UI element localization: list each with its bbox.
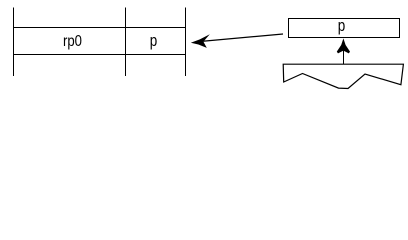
svg-text:p: p — [338, 16, 346, 35]
up arrowhead — [337, 38, 350, 53]
svg-text:p: p — [150, 31, 158, 50]
arrowhead pointing left — [191, 34, 210, 48]
up arrow shaft — [343, 48, 345, 65]
zigzag region outline — [283, 64, 403, 88]
box P rectangle — [289, 19, 400, 38]
tape horizontal line top — [13, 27, 186, 29]
tape vertical line middle — [125, 8, 127, 77]
tape horizontal line bottom — [13, 54, 186, 56]
arrow shaft from box to tape cell — [200, 34, 283, 42]
tape vertical line left — [13, 8, 15, 77]
tape vertical line right — [185, 8, 187, 77]
svg-text:rp0: rp0 — [63, 33, 82, 50]
